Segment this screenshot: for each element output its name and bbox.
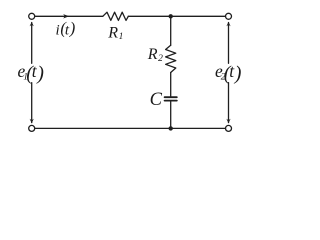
svg-text:C: C [150, 90, 163, 110]
resistor R2 [166, 45, 176, 72]
node junction top [169, 14, 173, 18]
voltage arrow e2 lower (points down) [228, 83, 230, 123]
terminal top-right [226, 13, 232, 19]
svg-text:i: i [56, 22, 60, 38]
node junction bottom [169, 126, 173, 130]
terminal bottom-left [29, 125, 35, 131]
svg-text:1: 1 [119, 32, 124, 42]
voltage arrow e2 upper (points up) [228, 23, 230, 64]
terminal bottom-right [226, 125, 232, 131]
capacitor C [165, 96, 177, 98]
wire bottom rail [35, 127, 226, 129]
voltage arrow e1 lower (points down) [31, 83, 33, 123]
svg-text:): ) [234, 62, 242, 84]
svg-text:): ) [36, 62, 44, 84]
wire R2 to capacitor [170, 73, 172, 97]
terminal top-left [29, 13, 35, 19]
svg-text:): ) [69, 19, 76, 38]
wire middle branch upper [170, 16, 172, 45]
wire top rail right segment [128, 15, 225, 17]
voltage arrow e1 upper (points up) [31, 23, 33, 64]
svg-text:R: R [147, 46, 158, 63]
svg-text:2: 2 [158, 54, 163, 64]
wire capacitor to bottom rail [170, 102, 172, 129]
wire top rail left segment [35, 15, 103, 17]
svg-text:R: R [107, 24, 118, 41]
current arrowhead i(t) [63, 14, 69, 18]
resistor R1 [103, 12, 129, 20]
